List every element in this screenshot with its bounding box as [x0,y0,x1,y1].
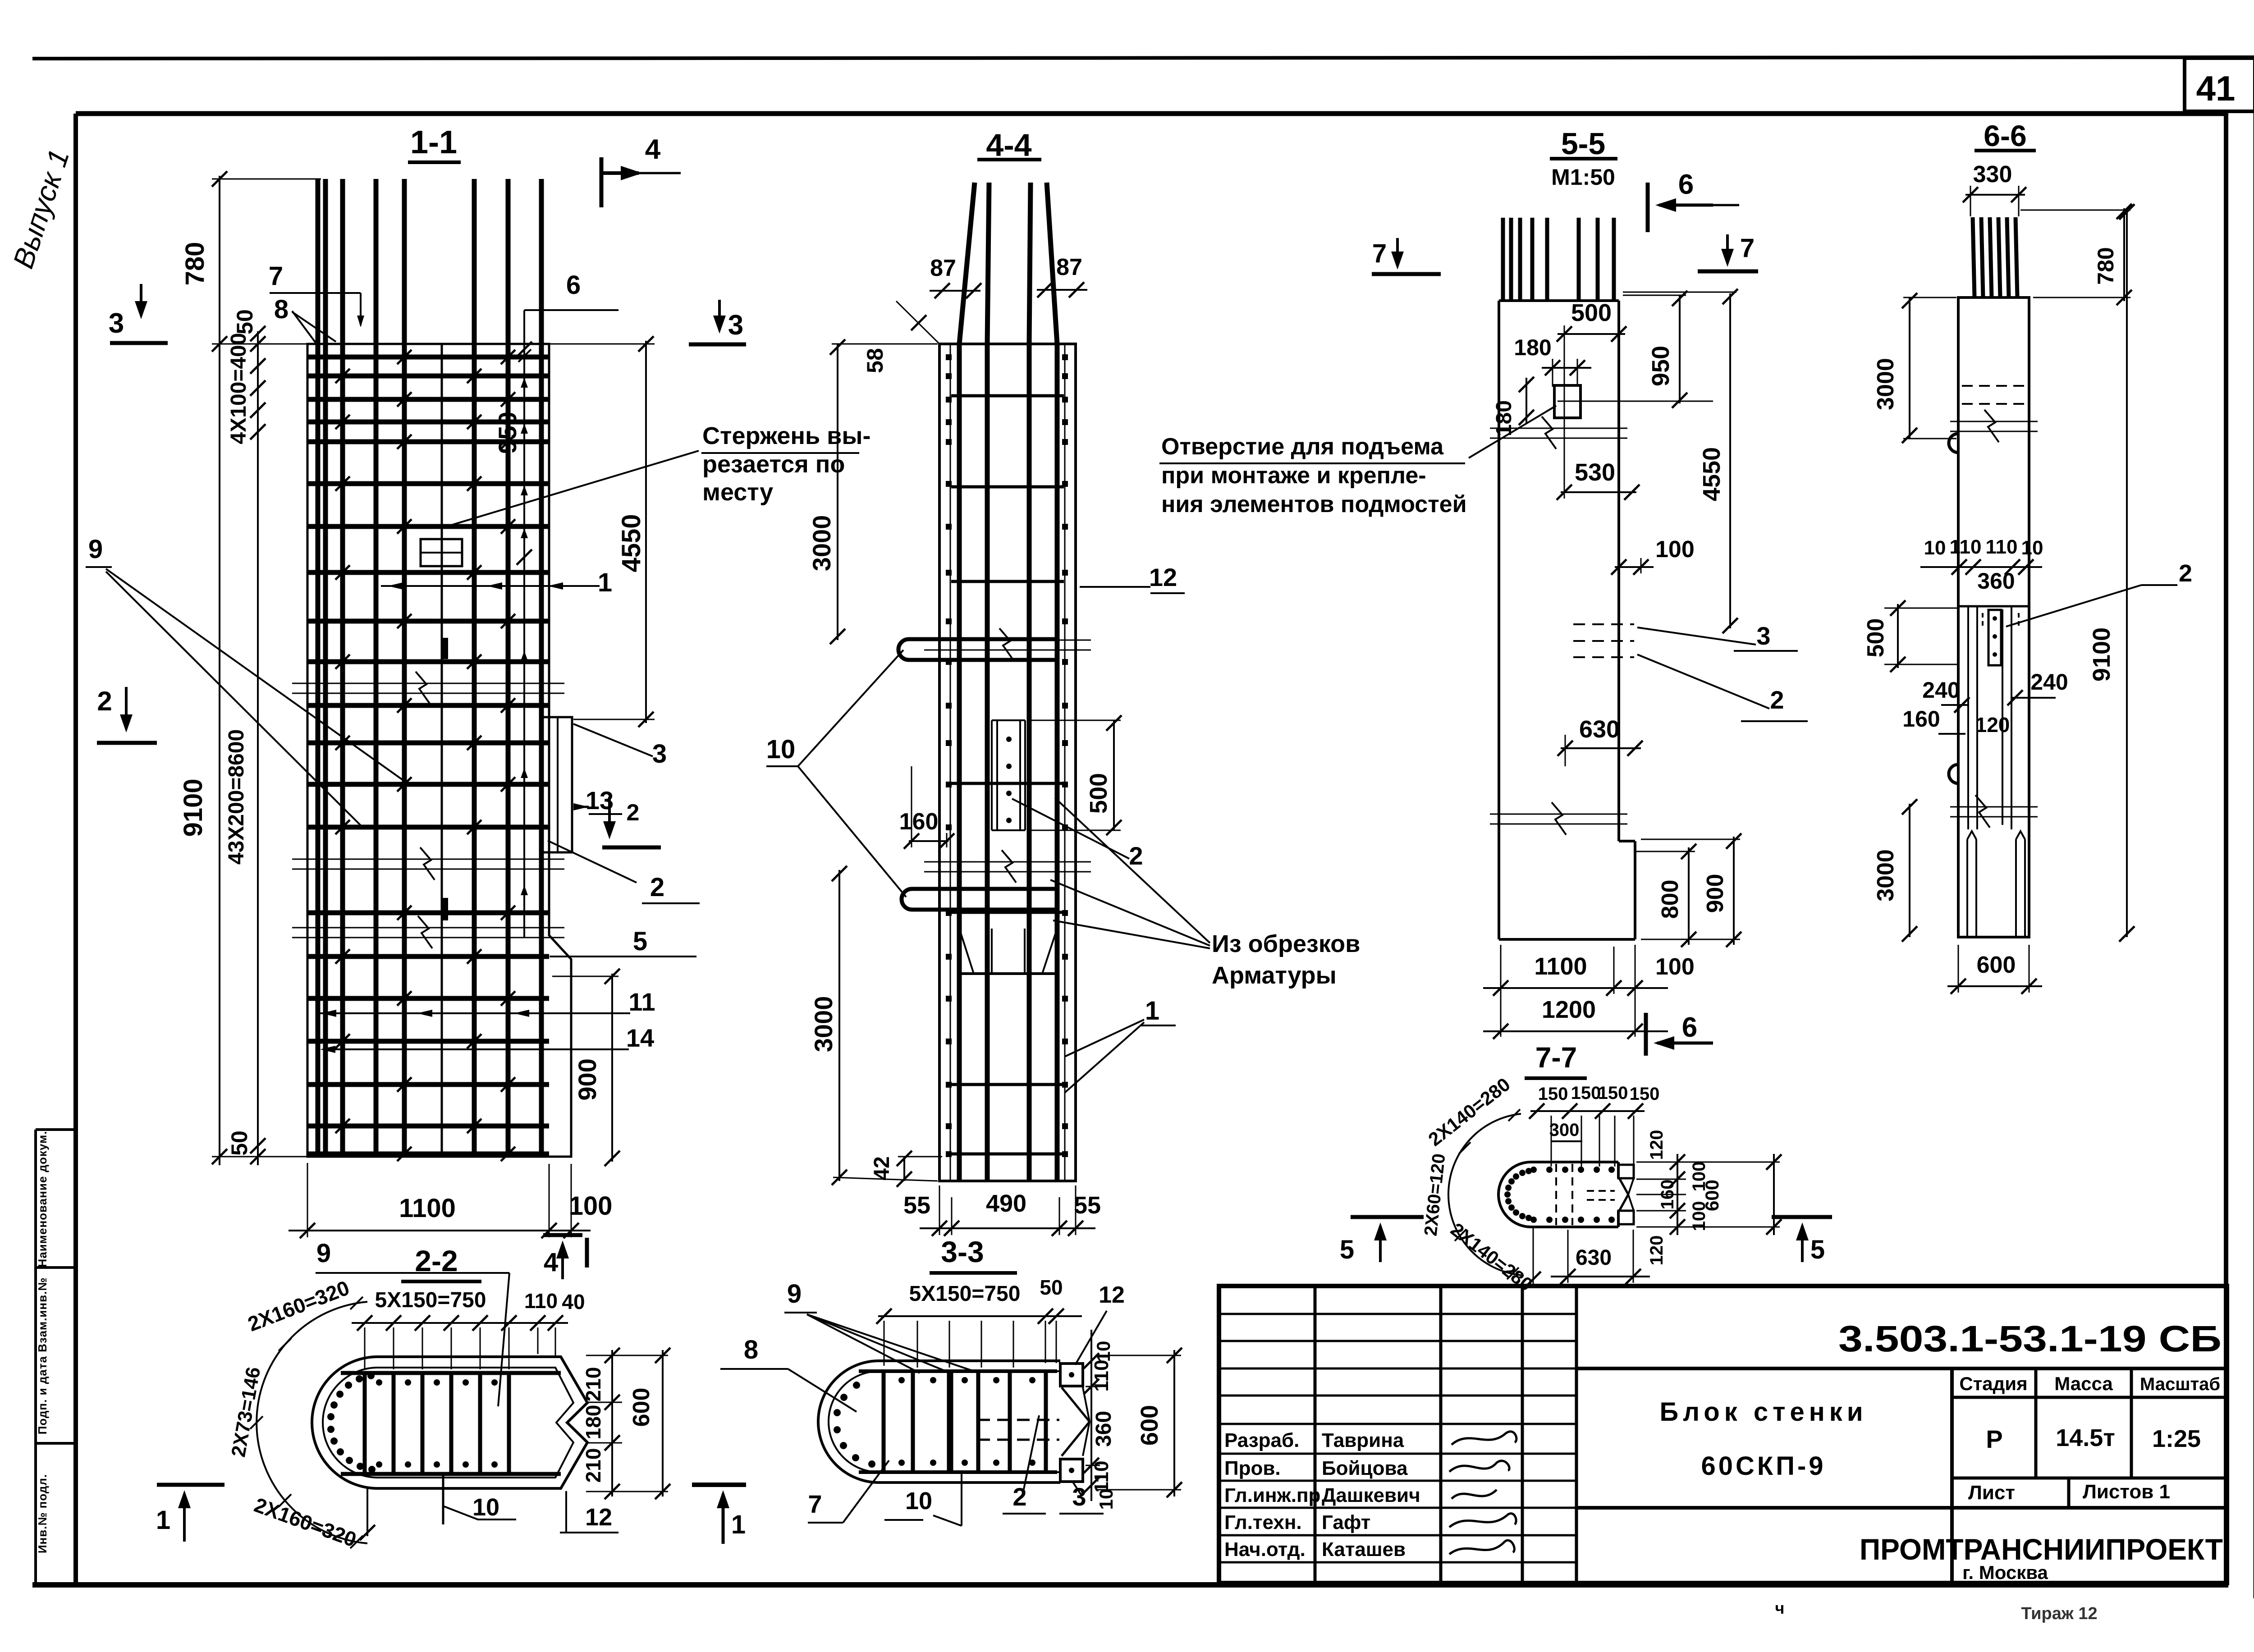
label 12 view 2-2 [565,1491,567,1533]
svg-text:50: 50 [232,309,257,334]
view 1-1 horizontal rebars [307,357,549,1154]
view 4-4 hairpin hook 1 [898,639,1057,660]
svg-text:55: 55 [903,1192,930,1219]
svg-text:3000: 3000 [1873,358,1899,410]
svg-text:10: 10 [1093,1341,1114,1362]
svg-text:ния элементов подмостей: ния элементов подмостей [1161,491,1467,517]
svg-text:900: 900 [1702,874,1728,913]
view 5-5 column outline [1499,299,1619,302]
svg-text:5Х150=750: 5Х150=750 [375,1288,486,1312]
dimension 950 [523,347,525,938]
svg-text:1-1: 1-1 [410,124,457,160]
svg-text:5-5: 5-5 [1561,127,1605,161]
svg-text:4Х100=400: 4Х100=400 [227,333,251,444]
svg-text:240: 240 [2030,669,2068,695]
svg-text:180: 180 [582,1405,605,1440]
label 10 view 3-3 [961,1472,962,1526]
page right rule [2254,57,2254,1598]
view 7-7 dimension arc [1448,1114,1521,1275]
svg-text:160: 160 [1658,1180,1677,1210]
svg-text:9: 9 [88,535,103,564]
view 7-7 right extensions [1636,1162,1780,1163]
svg-text:Бойцова: Бойцова [1322,1457,1408,1479]
svg-text:2: 2 [650,873,664,902]
svg-text:3: 3 [1756,622,1770,650]
section mark 4 bottom [543,1233,582,1237]
sheet number box [2185,58,2254,111]
svg-text:Тираж 12: Тираж 12 [2021,1604,2097,1623]
view 3-3 right dimensions [1090,1330,1092,1501]
view 4-4 rungs [951,394,1064,398]
svg-text:Масса: Масса [2054,1373,2113,1394]
svg-text:530: 530 [1575,459,1615,486]
dimension 630 7-7 [1551,1276,1650,1277]
view 7-7 bar dots [1526,1215,1532,1221]
svg-text:110: 110 [1950,536,1982,558]
svg-text:10: 10 [766,735,796,764]
svg-text:1: 1 [1145,996,1159,1025]
svg-text:Стержень вы-: Стержень вы- [702,422,870,449]
svg-text:10: 10 [2021,537,2043,559]
svg-text:500: 500 [1863,618,1889,658]
svg-text:10: 10 [472,1494,499,1521]
leader to cut bar [444,451,699,527]
svg-text:120: 120 [1647,1236,1667,1266]
svg-text:3000: 3000 [1873,849,1899,902]
section mark 1 left [157,1483,224,1487]
dimension 330 [1965,194,2025,196]
svg-text:1: 1 [156,1506,170,1535]
svg-text:2: 2 [1129,842,1143,870]
dimension 800 [1688,847,1690,945]
page top rule [32,57,2254,59]
svg-text:630: 630 [1579,716,1620,743]
svg-text:7: 7 [269,261,283,291]
view 4-4 break upper [924,640,1091,641]
section mark 6 bottom [1644,1013,1648,1056]
left sidebar column [34,1130,37,1585]
svg-text:800: 800 [1657,880,1683,919]
svg-text:1200: 1200 [1542,996,1596,1023]
svg-text:150: 150 [1571,1083,1601,1103]
svg-text:50: 50 [1040,1276,1063,1299]
svg-text:1100: 1100 [399,1194,456,1223]
svg-text:6: 6 [1678,169,1694,200]
svg-text:2: 2 [627,800,640,826]
svg-text:55: 55 [1074,1192,1101,1219]
dimension 500 6-6 [1897,604,1899,668]
view 1-1 break line upper [292,683,564,684]
view 6-6 hook 2 [1949,764,1958,783]
svg-text:630: 630 [1576,1246,1612,1270]
dimension 58 top [896,301,939,344]
view 3-3 end plates [1060,1364,1083,1386]
svg-text:Масштаб: Масштаб [2140,1374,2220,1394]
section mark 1 right [692,1483,746,1487]
view 1-1 break line middle [292,859,564,860]
svg-text:4: 4 [645,134,661,165]
svg-text:210: 210 [582,1448,605,1483]
svg-text:87: 87 [1056,254,1082,280]
svg-text:М1:50: М1:50 [1551,165,1615,190]
svg-text:4550: 4550 [617,514,646,572]
title block right dividers [1576,1367,2227,1370]
view 1-1 bar stub marks [443,638,448,659]
label 10 view 2-2 [442,1474,444,1524]
svg-text:3000: 3000 [807,515,836,572]
view 6-6 break upper [1950,421,2038,422]
svg-text:Подп. и дата Взам.инв.№: Подп. и дата Взам.инв.№ [36,1277,49,1435]
svg-text:110: 110 [1986,536,2018,558]
svg-text:Отверстие для подъема: Отверстие для подъема [1161,434,1444,460]
svg-text:Гафт: Гафт [1322,1511,1370,1533]
dimension 500 slot [1113,720,1115,830]
svg-text:13: 13 [586,786,614,815]
svg-text:Наименование докум.: Наименование докум. [36,1131,49,1268]
svg-text:150: 150 [1538,1084,1568,1104]
svg-text:7: 7 [808,1490,822,1518]
view 6-6 bottom slots [1966,839,1968,937]
view 1-1 vertical rebars [318,179,541,1157]
svg-text:12: 12 [1149,563,1177,591]
svg-text:5: 5 [1340,1235,1354,1264]
svg-text:2: 2 [97,686,112,716]
view 6-6 column outline [1958,297,2029,937]
section mark 5 right [1772,1215,1832,1219]
svg-text:300: 300 [1549,1120,1580,1140]
svg-text:Стадия: Стадия [1959,1373,2027,1394]
view 6-6 dashed lines [1962,385,2026,387]
title block table rows [1219,1313,1576,1315]
view 3-3 stirrups [882,1371,886,1472]
view 4-4 outline [939,344,1076,1181]
svg-text:5: 5 [1810,1235,1825,1264]
svg-text:8: 8 [274,295,289,324]
svg-text:Гл.техн.: Гл.техн. [1224,1511,1302,1533]
svg-text:Разраб.: Разраб. [1224,1429,1299,1451]
svg-text:10: 10 [1924,537,1946,559]
svg-text:50: 50 [227,1130,252,1156]
svg-text:10: 10 [1095,1489,1117,1510]
svg-text:1:25: 1:25 [2152,1425,2201,1452]
svg-text:месту: месту [702,479,773,506]
view 2-2 right dimensions 210 180 210 600 [611,1350,613,1496]
view 6-6 break lower [1950,806,2038,808]
dimension 9100 6-6 [2126,208,2128,937]
svg-text:5: 5 [633,927,647,956]
svg-text:360: 360 [1977,568,2015,594]
svg-text:950: 950 [1647,346,1674,386]
dimension chain 780 / 9100 [219,176,220,1165]
svg-text:1: 1 [731,1510,746,1539]
svg-text:7-7: 7-7 [1535,1041,1577,1074]
view 7-7 right dimension lines [1677,1154,1678,1235]
view 7-7 outline [1498,1162,1618,1227]
svg-text:210: 210 [582,1367,605,1402]
svg-text:900: 900 [573,1058,601,1100]
view 3-3 inner outline [829,1371,1060,1472]
svg-text:12: 12 [585,1504,612,1531]
view 1-1 block outline [307,344,571,1157]
svg-text:600: 600 [1136,1405,1163,1446]
svg-text:240: 240 [1922,677,1960,703]
svg-text:при монтаже и крепле-: при монтаже и крепле- [1161,462,1426,489]
view 2-2 outer outline [312,1357,587,1488]
view 2-2 chord bars [341,1371,561,1375]
svg-text:160: 160 [1902,706,1940,732]
svg-text:Из обрезков: Из обрезков [1212,930,1360,957]
dimension 500 top [1558,333,1625,335]
svg-text:600: 600 [628,1388,655,1427]
svg-text:1100: 1100 [1534,953,1587,980]
drawing frame [76,111,2226,116]
svg-text:600: 600 [1977,952,2016,978]
dimensions 10 110 110 10 [1920,566,2042,568]
svg-text:6-6: 6-6 [1984,119,2026,152]
svg-text:110: 110 [524,1289,558,1313]
svg-text:9100: 9100 [2088,627,2115,682]
dimension 1100 and 100 [307,1163,308,1237]
dimension 3000 lower 6-6 [1909,804,1910,937]
svg-text:100: 100 [1655,536,1695,563]
dimension 3000 lower 4-4 [838,870,840,1181]
dimension chain 50 / 4x100=400 / 43x200=8600 / 50 [257,331,259,1165]
view 2-2 bottom extension [367,1488,368,1536]
view 3-3 outer outline [818,1361,1060,1483]
svg-text:14: 14 [626,1024,654,1052]
svg-text:Каташев: Каташев [1322,1538,1406,1560]
svg-text:Гл.инж.пр: Гл.инж.пр [1224,1484,1320,1506]
svg-text:2: 2 [2179,560,2192,587]
svg-text:950: 950 [493,412,522,453]
svg-text:58: 58 [862,348,888,373]
svg-text:500: 500 [1085,773,1112,814]
svg-text:Лист: Лист [1968,1482,2015,1504]
view 3-3 end point [1062,1387,1090,1422]
dimension 4550 [645,341,647,723]
view 6-6 hook 1 [1949,434,1958,453]
dimension 5x150=750 view 3-3 [878,1315,1082,1317]
svg-text:40: 40 [562,1290,585,1313]
view 1-1 side plate item 13 [542,717,572,852]
svg-text:резается по: резается по [702,451,845,478]
svg-text:7: 7 [1372,239,1387,268]
view 3-3 chord bars [859,1369,1057,1373]
svg-text:120: 120 [1647,1130,1667,1160]
view 3-3 dashed lines [977,1419,1059,1421]
svg-text:Инв.№ подл.: Инв.№ подл. [36,1474,49,1553]
svg-text:4550: 4550 [1698,447,1725,501]
view 4-4 vertical bars [957,344,962,1181]
svg-text:4: 4 [544,1248,558,1277]
dimension 600 view 3-3 [1173,1350,1175,1496]
svg-text:3: 3 [652,739,667,769]
dimension 42 [903,1157,905,1181]
svg-text:150: 150 [1598,1083,1628,1103]
svg-text:500: 500 [1571,299,1612,326]
svg-text:Арматуры: Арматуры [1212,962,1337,989]
svg-text:60СКП-9: 60СКП-9 [1701,1451,1826,1481]
view 2-2 inner outline [323,1368,573,1478]
view 7-7 end notch [1619,1178,1628,1194]
signatures [1452,1432,1516,1445]
svg-text:14.5т: 14.5т [2056,1424,2115,1451]
view 5-5 protruding bars [1501,218,1505,301]
svg-text:3000: 3000 [809,996,838,1053]
dimension 780 6-6 [2123,208,2125,301]
view 4-4 tapered bars top [959,183,975,344]
svg-text:180: 180 [1514,335,1551,360]
section mark 4 top [600,157,604,207]
svg-text:Блок стенки: Блок стенки [1660,1397,1868,1427]
dimension 530 [1561,491,1636,493]
svg-text:41: 41 [2196,69,2236,108]
svg-text:3: 3 [109,308,124,339]
dimension 160 hook [909,840,948,842]
svg-text:Листов 1: Листов 1 [2083,1481,2170,1503]
view 7-7 end plates [1618,1165,1634,1178]
svg-text:3-3: 3-3 [941,1235,984,1268]
svg-text:160: 160 [899,809,939,835]
dimension 900 view 1-1 [611,974,613,1162]
section mark 6 top [1646,183,1650,232]
title block outer [1219,1286,2227,1583]
svg-text:12: 12 [1099,1282,1125,1308]
view 6-6 middle slot [1958,605,2029,608]
view 5-5 break lower [1490,814,1627,815]
svg-text:10: 10 [905,1487,932,1515]
svg-text:330: 330 [1973,161,2012,188]
svg-text:3.503.1-53.1-19 СБ: 3.503.1-53.1-19 СБ [1838,1318,2222,1359]
view 4-4 hairpin hook 2 [902,889,1057,910]
svg-text:42: 42 [870,1156,894,1180]
svg-text:ПРОМТРАНСНИИПРОЕКТ: ПРОМТРАНСНИИПРОЕКТ [1860,1533,2223,1566]
view 1-1 break line lower [292,927,564,929]
dimension 100 step [1615,566,1654,568]
svg-text:600: 600 [1701,1180,1723,1211]
dimension 950 5-5 [1679,295,1681,403]
view 6-6 protruding bars [1973,217,1975,297]
svg-text:6: 6 [566,270,581,300]
view 1-1 tick slashes [335,350,515,1161]
section mark 2 right [608,797,611,836]
dimensions 1100 100 1200 bottom 5-5 [1500,945,1502,1037]
dimension 4550 [1729,293,1731,628]
svg-text:Пров.: Пров. [1224,1457,1281,1479]
svg-text:9: 9 [316,1239,331,1268]
svg-text:Дашкевич: Дашкевич [1322,1484,1420,1506]
svg-text:3: 3 [1072,1483,1086,1511]
svg-text:1: 1 [598,568,612,597]
svg-text:100: 100 [569,1191,613,1221]
dimensions 55 490 55 [939,1185,940,1235]
view 4-4 anchor trapezoids [959,929,992,974]
leader hole note [1469,406,1556,458]
view 5-5 break upper [1490,428,1627,429]
dimension 180 vert [1526,378,1527,424]
view 4-4 break lower [924,861,1091,863]
svg-text:87: 87 [930,255,956,281]
svg-text:8: 8 [744,1335,758,1364]
svg-text:ч: ч [1775,1599,1785,1617]
svg-text:9100: 9100 [179,778,208,837]
svg-text:7: 7 [1740,233,1755,263]
view 4-4 inner slot [991,720,993,830]
dimension 3000 upper 4-4 [837,344,838,640]
view 7-7 dashed stirrups [1555,1164,1557,1225]
svg-text:100: 100 [1655,954,1695,980]
svg-text:Р: Р [1986,1425,2002,1453]
title block table verticals [1314,1286,1317,1583]
svg-text:43Х200=8600: 43Х200=8600 [224,729,248,865]
svg-text:4-4: 4-4 [986,128,1031,163]
svg-text:2: 2 [1770,686,1784,714]
dimension 630 5-5 [1561,747,1641,749]
dimension 3000 upper 6-6 [1909,297,1910,439]
view 2-2 cap dots [368,1466,376,1473]
view 2-2 stirrups [363,1373,367,1474]
svg-text:9: 9 [787,1279,802,1309]
svg-text:3: 3 [728,310,743,341]
svg-text:360: 360 [1092,1411,1116,1447]
view 1-1 cut bar rectangle [421,539,462,566]
svg-text:780: 780 [180,242,210,286]
dimension 150x4 7-7 [1530,1110,1645,1112]
dimension 5x150=750 [352,1322,536,1324]
dimension 180 horiz [1542,367,1591,369]
svg-text:490: 490 [986,1190,1026,1217]
view 5-5 lifting hole [1554,385,1581,418]
svg-text:г. Москва: г. Москва [1962,1562,2048,1583]
dimension 600 6-6 [1947,985,2042,987]
svg-text:Таврина: Таврина [1322,1429,1404,1451]
svg-text:780: 780 [2093,247,2118,284]
view 3-3 cap dots [868,1460,875,1468]
svg-text:6: 6 [1682,1012,1697,1043]
section mark 5 left [1351,1215,1424,1219]
svg-text:5Х150=750: 5Х150=750 [909,1282,1021,1306]
view 4-4 edge bar dots [946,354,1068,1157]
svg-text:11: 11 [628,988,655,1016]
svg-text:120: 120 [1975,713,2010,737]
svg-text:150: 150 [1630,1084,1660,1104]
view 2-2 dimension arc [257,1302,367,1543]
svg-text:Нач.отд.: Нач.отд. [1224,1538,1306,1560]
view 5-5 dashed bars [1573,623,1634,625]
dimension 900 5-5 [1733,837,1735,945]
